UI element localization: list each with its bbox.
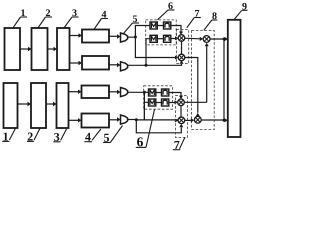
wire block2b to block3b bbox=[46, 103, 53, 105]
wire 4d to 5d bbox=[109, 119, 117, 121]
dashed box 6 top bbox=[146, 20, 177, 45]
wire 4c to 5c bbox=[109, 91, 117, 93]
block 4c bbox=[82, 86, 110, 99]
pentagon 5c bbox=[121, 88, 128, 97]
L block row1 top bbox=[164, 22, 171, 29]
wire block3 to block4a bbox=[70, 35, 79, 37]
label 7 top bbox=[195, 10, 199, 17]
M block row2 bottom bbox=[149, 99, 156, 106]
label 6 top bbox=[168, 2, 172, 9]
wire 5d right to mixerB left bbox=[136, 119, 177, 121]
label 4 bottom bbox=[85, 133, 91, 141]
wire block3b to block4d bbox=[69, 119, 79, 121]
wire pentagon5d junction bbox=[128, 119, 137, 121]
wire junction down to mixer2 left bbox=[135, 37, 175, 58]
wire junction up to row1 M input bbox=[135, 26, 150, 38]
wire junction up to row2 M input bbox=[146, 39, 150, 66]
label 2 bottom bbox=[28, 133, 33, 141]
wire L row1 out down to mixer1 top bbox=[171, 26, 181, 32]
block 4a bbox=[82, 30, 109, 43]
pentagon 5d bbox=[121, 115, 128, 124]
wire mixer2 output down to mixerC top bbox=[184, 58, 197, 113]
wire M to L row2 top bbox=[157, 38, 163, 40]
label 9 top bbox=[242, 3, 246, 10]
mixer A bbox=[178, 99, 185, 106]
block 3 top bbox=[57, 28, 70, 70]
mixer 3 bbox=[203, 36, 210, 43]
wire L row2 out to mixer1 left bbox=[171, 38, 175, 40]
wire M to L row1 top bbox=[157, 25, 163, 27]
wire pentagon5b junction bbox=[128, 64, 146, 66]
label 5 bottom bbox=[104, 134, 109, 142]
wire block1b to block2b bbox=[18, 103, 28, 105]
wire block2 to block3 bbox=[48, 48, 54, 50]
M block row2 top bbox=[150, 35, 157, 42]
label 3 bottom bbox=[54, 133, 59, 141]
wire mixerA to mixerB vertical bbox=[180, 105, 182, 118]
wire M to L row2 bottom bbox=[156, 102, 162, 104]
L block row1 bottom bbox=[162, 89, 169, 96]
mixer B bbox=[178, 117, 185, 124]
label 5 top bbox=[133, 15, 137, 22]
block 1 bottom bbox=[4, 83, 18, 128]
label 4 top bbox=[102, 11, 107, 18]
label 1 bottom bbox=[4, 133, 8, 141]
pentagon 5b bbox=[121, 62, 128, 71]
mixer 1 bbox=[178, 35, 185, 42]
wire mixerA output up to mixer3 bottom bbox=[206, 46, 208, 102]
dashed box 8 bbox=[192, 31, 215, 130]
wire block1 to block2 bbox=[20, 48, 28, 50]
wire 5b to mixer2 bottom bbox=[146, 64, 182, 65]
M block row1 top bbox=[150, 22, 157, 29]
L block row2 bottom bbox=[162, 99, 169, 106]
wire pentagon5a junction bbox=[128, 36, 136, 38]
pentagon 5a bbox=[121, 33, 128, 42]
label 3 top bbox=[72, 9, 76, 16]
long vertical junction line bbox=[223, 39, 225, 120]
mixer C bbox=[194, 116, 201, 123]
wire 5c down branch bbox=[143, 92, 145, 120]
label 7 bottom bbox=[174, 141, 179, 149]
wire mixerC output to block9 bbox=[201, 119, 227, 121]
wire M to L row1 bottom bbox=[156, 92, 162, 94]
mixer 2 bbox=[178, 54, 185, 61]
wire mixer1 to mixer2 vertical bbox=[181, 40, 183, 55]
block 2 top bbox=[32, 28, 48, 70]
wire block4b to pentagon 5b bbox=[109, 64, 117, 66]
block 3 bottom bbox=[57, 83, 69, 128]
wire mixerB output to mixerC left bbox=[184, 119, 191, 121]
label 1 top bbox=[21, 9, 25, 16]
wire block3b to block4c bbox=[69, 91, 79, 93]
label 8 top bbox=[212, 12, 216, 19]
block 4b bbox=[82, 56, 109, 70]
wire mixer1 to mixer3 bbox=[184, 37, 199, 40]
dashed box 7 top bbox=[177, 30, 189, 64]
M block row1 bottom bbox=[149, 89, 156, 96]
wire mixerA output to vertical bbox=[184, 101, 207, 103]
wire up to row2 bottom M input bbox=[144, 102, 148, 120]
wire block4a to pentagon 5a bbox=[109, 35, 117, 37]
block 2 bottom bbox=[31, 83, 46, 128]
wire pentagon5c junction into row1 bbox=[128, 91, 149, 93]
label 6 bottom bbox=[137, 137, 143, 146]
wire 5d down to mixerB bottom bbox=[136, 120, 181, 133]
label 2 top bbox=[46, 9, 50, 16]
wire mixer3 output to block9 with junction bbox=[210, 38, 228, 40]
dashed box 7 bottom bbox=[175, 96, 187, 138]
wire L row1 bottom out down to mixerA top bbox=[169, 93, 181, 96]
L block row2 top bbox=[164, 35, 171, 42]
block 1 top bbox=[5, 28, 21, 70]
wire L row2 bottom out to mixerA left bbox=[169, 102, 175, 104]
block 4d bbox=[82, 114, 110, 128]
block 9 bbox=[228, 20, 241, 137]
wire block3 to block4b bbox=[70, 62, 79, 64]
dashed box 6 bottom bbox=[144, 86, 173, 109]
